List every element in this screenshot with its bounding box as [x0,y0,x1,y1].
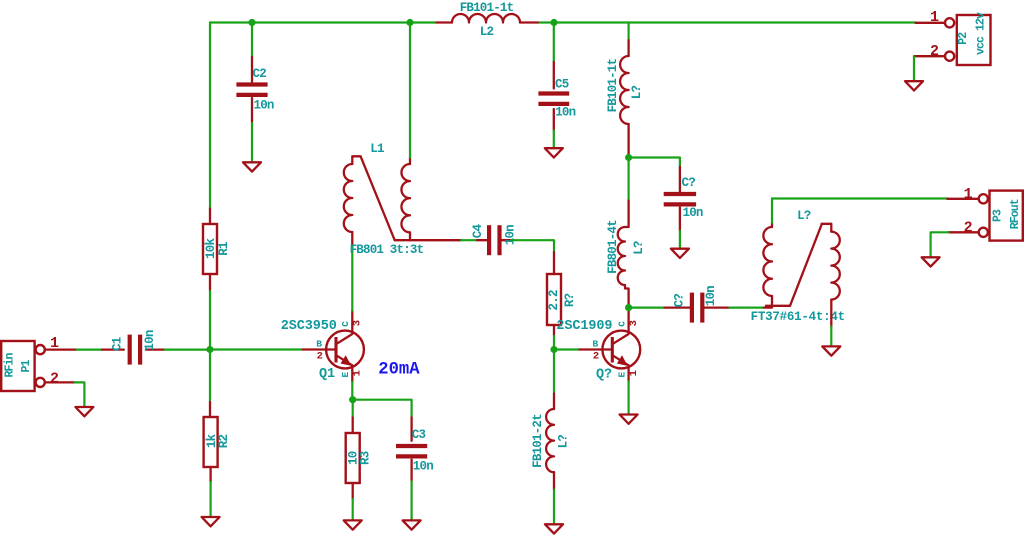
svg-text:FB101-1t: FB101-1t [606,59,620,113]
transformer L? FT37 secondary [790,224,840,327]
ground FB101-2t [545,524,563,533]
svg-text:E: E [617,372,628,378]
svg-text:10n: 10n [254,99,274,113]
wire FB101-2t bottom [553,490,555,524]
ground Q2 [620,415,638,424]
svg-text:C: C [340,321,351,327]
svg-text:10n: 10n [555,106,575,120]
inductor FB101-1t right [606,40,644,157]
svg-text:R2: R2 [217,435,231,449]
svg-text:E: E [340,372,351,378]
svg-text:L?: L? [630,86,644,100]
svg-text:C1: C1 [110,337,124,351]
capacitor C3 [396,417,433,481]
svg-text:2.2: 2.2 [547,290,561,310]
ground C3 [403,520,421,529]
ground C? decoupling [671,249,689,258]
svg-text:2SC3950: 2SC3950 [281,319,337,334]
resistor R2 [204,402,231,482]
inductor FB801-4t [606,201,646,308]
wire L1 to C4 [461,239,477,241]
transformer L1 secondary [350,142,461,257]
ground P2 [905,81,923,90]
wire Q2 emitter to ground [627,381,629,413]
svg-text:1: 1 [628,370,640,376]
connector P2 vcc 12v [914,9,991,65]
wire junction to C? decoupling [629,158,680,167]
capacitor C5 [538,62,575,131]
svg-text:L?: L? [556,435,570,449]
node base junction Q2 [550,346,557,353]
wire C4 to R? [511,240,554,252]
wire base node to R2 [209,350,211,403]
svg-text:10k: 10k [204,238,218,259]
wire R3 bottom [352,499,354,520]
svg-text:10n: 10n [503,225,517,245]
svg-text:B: B [592,338,598,349]
svg-text:2: 2 [593,350,599,362]
svg-text:FB101-1t: FB101-1t [460,1,514,15]
wire Q1 emitter [351,382,353,400]
svg-text:10n: 10n [413,460,433,474]
svg-text:B: B [316,338,322,349]
resistor R3 [346,400,373,499]
svg-text:20mA: 20mA [378,360,420,379]
svg-text:R?: R? [563,293,577,307]
connector P1 RFin [1,335,77,391]
ground C2 [243,162,261,171]
svg-text:1: 1 [352,370,364,376]
svg-text:L?: L? [632,241,646,255]
wire base node to Q2 [554,348,579,350]
inductor L2 FB101-1t [437,1,538,39]
svg-text:10n: 10n [683,206,703,220]
wire C? decoupling bottom [679,231,681,248]
node junction FB101-1t bottom [625,154,632,161]
svg-text:C?: C? [682,176,696,190]
ground R2 [202,517,220,526]
wire C2 bottom [251,123,253,162]
transformer L1 FB801 3t:3t primary [344,156,395,247]
wire FT37 primary top to P3 [772,199,947,223]
wire junction to FB801-4t [627,158,629,201]
svg-text:C?: C? [672,294,686,308]
ground P3 [922,257,940,266]
wire C2 top [251,23,253,58]
svg-text:10n: 10n [704,286,718,306]
svg-text:R1: R1 [217,242,231,256]
wire C5 bottom [553,131,555,148]
ground C5 [545,148,563,157]
label 20mA [378,360,420,379]
svg-text:C4: C4 [471,224,485,239]
svg-text:2: 2 [317,350,323,362]
resistor R? 2.2 [547,252,577,336]
svg-text:1: 1 [964,186,973,203]
node junction Q2 collector [625,304,632,311]
transistor Q1 2SC3950 [281,311,364,383]
svg-text:C3: C3 [412,428,426,442]
svg-text:2: 2 [50,370,59,387]
svg-text:RFin: RFin [3,353,16,378]
node junction at C2 top [248,19,255,26]
svg-text:Q?: Q? [596,367,612,382]
node junction at L1 top [406,19,413,26]
wire C1 to base node [165,349,210,351]
svg-text:R3: R3 [359,451,373,465]
node base junction Q1 [206,346,213,353]
capacitor C2 [236,57,274,123]
node emitter junction Q1 [349,396,356,403]
wire C? to FT37 [730,307,764,309]
svg-text:RFout: RFout [1009,199,1022,229]
svg-text:P3: P3 [992,209,1005,222]
wire vcc top rail [210,21,916,23]
node junction at C5 top [550,19,557,26]
svg-text:L1: L1 [370,142,384,156]
svg-text:FB801-4t: FB801-4t [606,220,620,274]
svg-text:P1: P1 [20,360,33,373]
svg-text:L?: L? [797,209,811,223]
wire FT37 secondary to ground [830,326,832,345]
wire base node to Q1 [210,348,303,350]
wire C3 bottom [411,481,413,519]
transformer L? FT37#61-4t:4t primary [751,209,845,324]
svg-text:C2: C2 [253,67,267,81]
connector P3 RFout [947,186,1023,241]
svg-text:10n: 10n [143,330,157,350]
svg-text:Q1: Q1 [319,367,335,382]
ground P1 [75,407,93,416]
svg-text:vcc 12v: vcc 12v [974,12,987,55]
transistor Q2 2SC1909 [556,308,640,383]
wire P3 pin2 to ground [931,232,949,256]
svg-text:C: C [617,321,628,327]
wire L1 primary to Q1 collector [351,247,353,311]
ground FT37 [822,346,840,355]
svg-text:C5: C5 [555,78,569,92]
wire R? to base node Q2 [553,336,555,350]
resistor R1 [203,209,231,291]
svg-text:L2: L2 [480,25,494,39]
svg-text:3: 3 [352,320,364,326]
svg-text:3: 3 [628,320,640,326]
wire R2 bottom [210,482,212,516]
ground R3 [344,520,362,529]
inductor FB101-2t [531,394,570,490]
svg-text:2: 2 [964,220,973,237]
wire emitter to C3 [353,400,412,418]
svg-text:FB801 3t:3t: FB801 3t:3t [350,243,424,257]
wire Q2 collector to C? [629,307,665,309]
wire P2 pin2 to ground [913,56,915,80]
wire C5 top [553,23,555,63]
wire rail to FB101-1t [627,23,629,41]
capacitor C1 [102,330,165,364]
wire P1 pin1 to C1 [77,349,102,351]
wire R1 to base node [209,291,211,350]
capacitor C4 [471,224,517,256]
svg-text:FB101-2t: FB101-2t [531,414,545,468]
wire vcc left drop [209,23,211,209]
capacitor C? output [665,286,730,323]
wire L1 secondary to rail [409,23,411,158]
svg-text:2SC1909: 2SC1909 [556,319,612,334]
wire base node to FB101-2t [553,350,555,394]
wire P1 pin2 to ground [75,382,85,406]
svg-text:2: 2 [930,43,939,60]
capacitor C? decoupling [664,167,703,231]
svg-text:P2: P2 [957,32,970,45]
